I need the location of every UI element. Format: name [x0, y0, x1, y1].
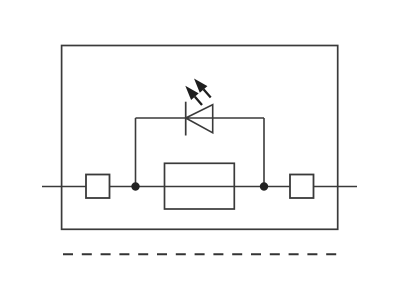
- wire branch left vertical: [135, 118, 137, 187]
- component plug fuse holder: [165, 163, 235, 209]
- LED light arrow 1: [185, 86, 202, 105]
- terminal clamp right: [290, 175, 314, 199]
- wire branch right vertical: [263, 118, 265, 187]
- enclosure box: [62, 46, 338, 230]
- LED light arrow 2: [194, 79, 211, 98]
- LED D1 triangle: [186, 105, 213, 133]
- DIN rail dashed line: [63, 253, 336, 255]
- terminal clamp left: [86, 175, 110, 199]
- wire main horizontal: [42, 186, 357, 188]
- wire branch top horizontal: [136, 117, 265, 119]
- node junction left: [131, 182, 139, 190]
- LED D1 cathode bar: [185, 102, 187, 136]
- node junction right: [260, 182, 268, 190]
